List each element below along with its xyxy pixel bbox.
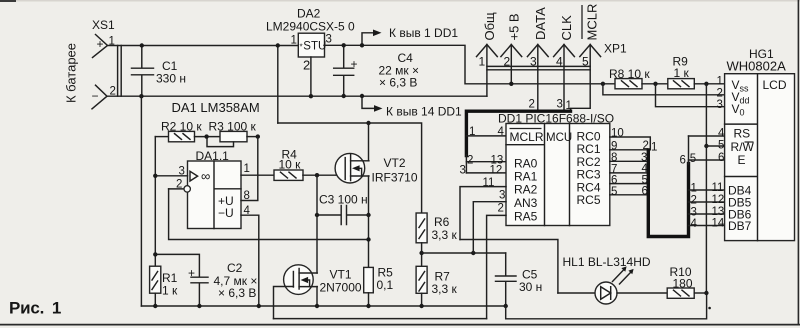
XP1 pin 1 contact (477, 45, 498, 57)
svg-text:C3 100 н: C3 100 н (319, 193, 368, 207)
wire R8 to R9 (642, 83, 668, 85)
wire VT2 drain lead (368, 123, 370, 161)
wire VT1 source to ground (316, 287, 318, 306)
svg-text:1: 1 (651, 142, 657, 154)
wire RC0 into bus (610, 137, 651, 150)
svg-text:11: 11 (712, 182, 724, 194)
wire bus exit 1 to MCLR pin (466, 135, 506, 137)
XS1 pin 1 contact (93, 35, 108, 58)
svg-text:1: 1 (691, 183, 697, 195)
wire Общ stem (486, 45, 488, 97)
svg-text:RA0: RA0 (514, 157, 538, 171)
svg-text:−: − (92, 89, 99, 103)
right border line (797, 0, 799, 325)
svg-text:2N7000: 2N7000 (320, 281, 362, 295)
XP1 pin 5 contact (580, 45, 601, 57)
wire R9 to HG1 pin 1 (694, 83, 724, 85)
svg-text:4: 4 (498, 126, 505, 138)
svg-text:WH0802A: WH0802A (727, 59, 787, 74)
svg-text:3: 3 (691, 207, 697, 219)
svg-text:2: 2 (498, 203, 504, 215)
wire AN3 to divider (473, 202, 506, 253)
wire tap to pin 14 DD1 (362, 96, 376, 108)
XS1 connector boundary double line (118, 46, 122, 97)
XP1 pin 3 contact (527, 45, 548, 57)
wire RC3 into bus (610, 172, 649, 174)
svg-text:4: 4 (691, 218, 698, 230)
wire RA5 to VT1 gate bottom run (274, 318, 487, 320)
svg-text:Общ: Общ (482, 12, 497, 41)
svg-text:RC5: RC5 (577, 193, 601, 207)
svg-text:6: 6 (718, 152, 724, 164)
wire Vdd tap (603, 84, 725, 95)
wire bus exit 3 to RA1 (466, 172, 506, 174)
wire ground vertical to R10 (705, 84, 707, 293)
svg-text:2: 2 (467, 155, 473, 167)
wire RW to ground (706, 145, 724, 147)
MCU DD1 body (506, 124, 610, 226)
svg-text:MCLR: MCLR (585, 4, 600, 41)
svg-text:XP1: XP1 (604, 42, 627, 56)
wire riser battery plus to VT2 drain line (277, 46, 279, 124)
svg-text:5: 5 (611, 186, 617, 198)
svg-text:× 6,3 В: × 6,3 В (218, 286, 256, 300)
wire feedback to current sense (169, 189, 369, 240)
svg-text:1: 1 (469, 126, 475, 138)
wire +5V stem (510, 45, 512, 84)
svg-text:К выв 14 DD1: К выв 14 DD1 (386, 105, 462, 119)
svg-text:DA2: DA2 (297, 7, 321, 21)
svg-text:3: 3 (557, 99, 563, 111)
svg-text:LCD: LCD (763, 78, 787, 92)
svg-text:14: 14 (712, 218, 725, 230)
svg-text:+5 В: +5 В (506, 13, 521, 40)
wire bus exit 2 to DB5 (689, 201, 725, 203)
node junction C1 bottom (139, 94, 143, 98)
wire RA2 run to LED feed (460, 240, 558, 294)
wire battery plus rail (108, 45, 299, 47)
svg-text:3,3 к: 3,3 к (432, 228, 458, 242)
wire DA2 ground pin (310, 57, 312, 96)
wire ground return under LED (506, 293, 707, 319)
resistor R5 (368, 266, 370, 268)
svg-text:12: 12 (490, 165, 503, 177)
capacitor C4 (334, 45, 354, 96)
svg-text:DATA: DATA (533, 7, 548, 40)
wire RA2 to LED branch (460, 187, 506, 240)
bus thick programming harness (466, 111, 570, 155)
capacitor C2 (155, 254, 208, 306)
wire tap to pin 1 DD1 (362, 33, 375, 46)
svg-text:× 6,3 В: × 6,3 В (379, 76, 417, 90)
svg-text:8: 8 (611, 152, 617, 164)
svg-text:13: 13 (712, 206, 725, 218)
svg-text:1: 1 (291, 35, 297, 47)
svg-text:5: 5 (718, 140, 724, 152)
svg-text:RS: RS (734, 127, 751, 141)
svg-text:0,1: 0,1 (377, 278, 394, 292)
wire bus exit 6 to E (689, 159, 725, 161)
svg-text:C2: C2 (227, 261, 243, 275)
svg-text:1: 1 (566, 100, 572, 112)
wire CLK stem (563, 45, 565, 111)
wire bus exit 3 to DB6 (689, 213, 725, 215)
svg-text:3,3 к: 3,3 к (432, 282, 458, 296)
svg-text:*: * (300, 43, 303, 52)
wire ground left drop (140, 96, 142, 306)
wire VT2 gate node to VT1 drain (316, 175, 318, 273)
wire divider sense to AN3 and C5 (422, 252, 506, 254)
svg-text:6: 6 (680, 154, 686, 166)
svg-text:1: 1 (244, 163, 250, 175)
svg-text:К выв 1 DD1: К выв 1 DD1 (389, 26, 458, 40)
wire ground rail top (107, 95, 487, 97)
wire bus exit 4 to DB7 (689, 225, 725, 227)
svg-text:1 к: 1 к (162, 284, 178, 298)
wire R4 to VT2 gate (303, 174, 344, 176)
wire bus exit 1 to DB4 (689, 189, 725, 191)
capacitor C1 (132, 46, 154, 97)
bus thick display harness (648, 150, 688, 237)
svg-text:3: 3 (717, 99, 723, 111)
svg-text:К батарее: К батарее (64, 43, 79, 103)
svg-text:E: E (738, 153, 746, 167)
svg-text:9: 9 (611, 141, 617, 153)
svg-text:DA1 LM358AM: DA1 LM358AM (172, 100, 260, 115)
resistor R7 (416, 266, 427, 293)
svg-text:VT2: VT2 (384, 156, 406, 170)
svg-text:1: 1 (717, 75, 723, 87)
resistor R1 (150, 266, 161, 293)
wire VT1 gate (274, 287, 294, 319)
svg-text:+: + (188, 266, 195, 280)
transistor VT2 IRF3710 (335, 153, 365, 183)
wire V0 tap (656, 84, 725, 107)
svg-text:XS1: XS1 (92, 18, 115, 32)
wire RA5 down (487, 215, 506, 318)
XP1 connector boundary double line (487, 66, 590, 69)
svg-text:3: 3 (460, 165, 466, 177)
svg-text:∞: ∞ (201, 169, 210, 184)
svg-text:2: 2 (529, 99, 535, 111)
XS1 pin 2 contact (92, 85, 107, 109)
svg-text:6: 6 (611, 175, 617, 187)
XP1 pin 4 contact (554, 45, 575, 57)
wire DATA stem (537, 45, 539, 111)
wire RC5 into bus (610, 194, 649, 196)
wire RC2 into bus (610, 160, 649, 162)
svg-text:2: 2 (691, 195, 697, 207)
svg-text:AN3: AN3 (514, 196, 538, 210)
svg-text:30 н: 30 н (519, 280, 542, 294)
svg-text:LM2940CSX-5 0: LM2940CSX-5 0 (266, 20, 355, 34)
svg-text:4: 4 (718, 128, 725, 140)
speck (708, 307, 711, 310)
svg-text:5: 5 (690, 153, 696, 165)
svg-text:MCU: MCU (546, 132, 572, 144)
svg-text:RA5: RA5 (514, 210, 538, 224)
wire input divider vertical (154, 137, 156, 267)
wire bus exit 5 to RS (689, 135, 725, 137)
capacitor C5 (496, 253, 517, 306)
wire RC1 into bus (610, 149, 649, 151)
svg-text:330 н: 330 н (156, 72, 186, 86)
wire 5V output rail (324, 45, 615, 84)
bottom border line (0, 324, 800, 326)
svg-text:DB7: DB7 (728, 219, 752, 233)
svg-text:+: + (97, 37, 104, 51)
svg-text:12: 12 (712, 194, 725, 206)
svg-text:+: + (351, 57, 358, 71)
svg-text:RA1: RA1 (514, 170, 538, 184)
transistor VT1 2N7000 (284, 265, 314, 295)
svg-text:10: 10 (611, 128, 624, 140)
svg-text:3: 3 (641, 152, 647, 164)
svg-text:VT1: VT1 (330, 268, 352, 282)
wire R3 tap loop (207, 137, 234, 147)
wire bus exit 2 to RA0 (466, 161, 506, 163)
svg-text:2: 2 (717, 87, 723, 99)
svg-text:MCLR: MCLR (510, 130, 544, 144)
XP1 pin 2 contact (501, 45, 522, 57)
svg-text:Рис. 1: Рис. 1 (9, 299, 61, 318)
wire RC4 into bus (610, 183, 649, 185)
svg-text:−U: −U (218, 206, 234, 220)
wire ground bottom rail (141, 305, 505, 307)
svg-text:1: 1 (479, 55, 486, 69)
svg-text:STU: STU (303, 40, 326, 52)
svg-text:HL1 BL-L314HD: HL1 BL-L314HD (563, 255, 651, 269)
svg-text:RA2: RA2 (514, 183, 538, 197)
svg-text:2: 2 (303, 58, 310, 73)
resistor R6 (416, 213, 427, 243)
svg-text:3: 3 (326, 34, 332, 46)
top border line (0, 0, 800, 2)
wire battery plus to drain and R6 (278, 123, 422, 213)
node junction C1 top (140, 43, 144, 47)
wire MCLR stem (571, 45, 591, 111)
svg-text:IRF3710: IRF3710 (372, 171, 418, 185)
svg-text:3: 3 (499, 190, 505, 202)
svg-text:CLK: CLK (559, 15, 574, 41)
wire VT2 source lead (368, 176, 370, 267)
